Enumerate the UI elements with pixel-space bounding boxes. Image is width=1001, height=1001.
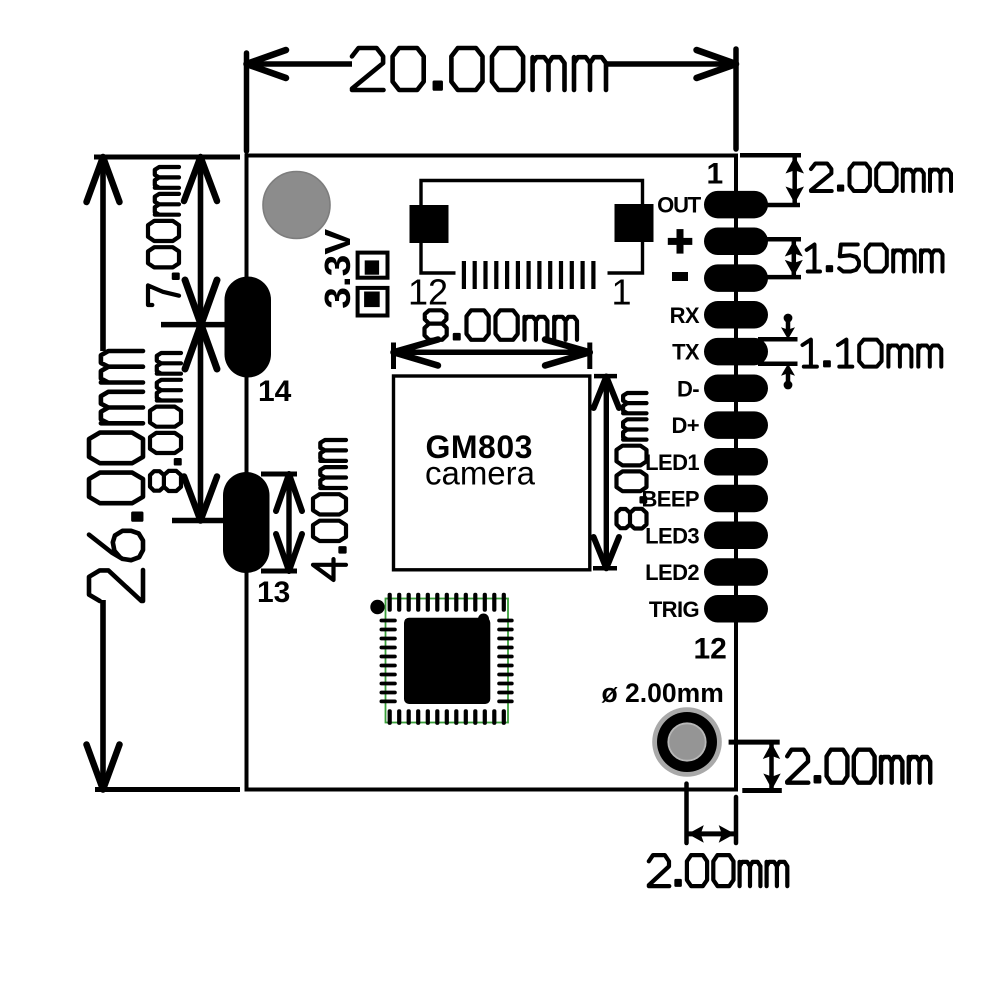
dimension 8.00mm (right of module) arrow up [594,377,619,409]
dimension mid tick at pad 14 centre [161,322,226,328]
dimension 1.50mm arrow down [785,260,803,276]
3.3V pad 1 outline [358,253,388,278]
dimension 1.50mm upper tick [763,237,801,242]
3.3V pad 2 outline [358,288,388,316]
QFP right pin column [497,619,514,704]
dimension label 8.00mm module (rotated) [617,393,647,529]
QFP top pin row [388,593,506,612]
dimension 1.10mm upper stem dot [784,314,793,323]
svg-text:D+: D+ [671,413,699,438]
dimension 26.00mm line upper segment [100,157,106,351]
dimension cross at pad 14 centre [185,280,217,369]
dimension 20.00mm line left segment [247,61,353,67]
dimension 26.00mm bottom tick [95,787,240,792]
dimension 2.00mm (bottom right) arrow up [763,743,780,759]
dimension label 2.00mm bottom [649,855,788,886]
dimension label 26.00mm left (rotated) [89,351,143,601]
svg-text:14: 14 [258,375,292,408]
dimension label 1.10mm [803,340,942,367]
dimension label 8.00mm left (rotated) [150,353,181,491]
dimension 2.00mm (bottom right) arrow down [763,774,780,790]
dimension 1.10mm arrow up [781,364,795,376]
right pad row pin 8 (LED1) [704,448,768,476]
dimension label 2.00mm bottom right [787,750,930,783]
dimension 4.00mm arrow down [276,534,302,571]
svg-text:12: 12 [408,272,448,313]
dimension 7.00mm arrow up [184,157,217,201]
right pad row pin 7 (D+) [704,411,768,439]
dimension 2.00mm (top right) upper tick [740,153,801,158]
right pad row pin 3 (-) [704,264,768,292]
plated hole outer ring [652,707,722,777]
QFP bottom pin row [388,709,506,725]
dimension label 7.00mm (rotated) [148,167,179,305]
pad 13 [223,472,270,573]
FPC connector right tab [615,204,654,242]
dimension label 4.00mm (rotated) [313,440,346,580]
dimension 4.00mm arrow up [276,474,302,511]
dimension label 8.00mm connector [425,310,578,340]
dimension label 1.50mm [807,245,943,272]
dimension 1.50mm line [792,239,797,277]
right pad row pin 6 (D-) [704,375,768,403]
svg-text:1: 1 [612,272,632,313]
QFP IC courtyard (green) [386,599,509,723]
3.3V pad 2 centre [364,292,380,308]
svg-text:D-: D- [677,376,699,401]
dimension 8.00mm (connector) arrow right [545,340,590,366]
plus label [668,229,693,254]
svg-text:ø 2.00mm: ø 2.00mm [602,678,724,708]
dimension 26.00mm arrow up [87,157,120,202]
dimension 2.00mm (top right) line [792,155,797,205]
dimension label 20.00mm top [352,48,606,90]
dimension 2.00mm (bottom right) line [769,742,774,790]
dimension 8.00mm (connector) arrow left [394,340,439,366]
dimension 1.10mm lower stem dot [784,381,793,390]
svg-text:LED2: LED2 [645,560,699,585]
FPC connector outline [421,181,643,274]
dimension 2.00mm (bottom right) upper tick [729,740,780,745]
dimension 2.00mm (bottom right) lower tick [742,788,782,793]
dimension 26.00mm line lower segment [100,600,106,790]
dimension 8.00mm (connector) right end bar [587,343,592,370]
dimension 4.00mm bottom tick [261,569,297,574]
plated hole bore [669,724,705,760]
FPC connector pins [462,261,596,289]
dimension 1.10mm lower stem [786,372,791,384]
dimension 20.00mm extension line left [244,53,250,151]
GM803 camera module outline [394,376,590,570]
dimension 8.00mm (connector) line [394,350,590,356]
dimension 20.00mm extension line right [733,49,739,149]
svg-text:camera: camera [425,455,536,492]
svg-text:OUT: OUT [657,193,702,218]
dimension 7.00mm / 8.00mm shared line [198,157,204,521]
right pad row pin 5 (TX) [704,338,768,366]
3.3V pad 1 centre [365,260,379,274]
dimension 8.00mm arrow down [184,477,217,521]
right pad row pin 11 (LED2) [704,558,768,586]
svg-text:1: 1 [707,158,724,191]
dimension 8.00mm (right of module) line [604,377,609,569]
QFP left pin column [380,619,397,704]
QFP IC body corner bump [478,614,489,625]
dimension 2.00mm (bottom) arrow left [688,825,704,843]
right pad row pin 9 (BEEP) [704,485,768,513]
svg-text:RX: RX [670,303,700,328]
svg-text:TRIG: TRIG [649,597,699,622]
svg-text:13: 13 [257,576,290,609]
dimension 2.00mm (top right) arrow down [786,187,805,204]
right pad row pin 2 (+) [704,228,768,256]
dimension 2.00mm (bottom) arrow right [719,825,735,843]
dimension 20.00mm line right segment [606,61,736,67]
dimension 1.50mm arrow up [785,241,803,257]
dimension 1.10mm arrow down [781,327,795,339]
plated hole black ring [657,712,717,772]
dimension 4.00mm line [286,474,291,571]
svg-text:12: 12 [694,633,727,666]
dimension 2.00mm (top right) arrow up [786,157,805,174]
dimension 8.00mm (connector) left end bar [391,343,396,370]
dimension 20.00mm arrow right [697,50,737,78]
pad 14 [225,277,272,378]
dimension 26.00mm top tick [94,155,240,160]
right pad row pin 10 (LED3) [704,522,768,550]
dimension 1.10mm upper stem [786,319,791,331]
right pad row pin 4 (RX) [704,301,768,329]
dimension 26.00mm arrow down [87,745,120,790]
dimension 8.00mm (right of module) top tick [594,374,617,379]
plated hole inner rim [667,722,706,761]
svg-text:BEEP: BEEP [641,487,699,512]
dimension 1.10mm upper tick [758,337,798,342]
dimension 20.00mm arrow left [247,50,287,78]
right pad row pin 1 (OUT) [704,191,768,219]
dimension 1.50mm lower tick [763,275,801,280]
dimension 2.00mm (bottom) line [688,831,735,836]
dimension 2.00mm (top right) lower tick [761,203,800,208]
dimension 8.00mm (right of module) arrow down [594,537,619,568]
minus label [672,272,688,281]
dimension 4.00mm top tick [261,472,297,477]
QFP pin-1 dot [370,600,384,614]
dimension label 2.00mm top right [811,164,951,192]
mounting hole top-left (gray) [263,172,330,239]
svg-text:LED1: LED1 [645,450,699,475]
svg-text:TX: TX [672,340,700,365]
dimension 2.00mm (bottom) hole centre extension [684,784,689,843]
dimension 8.00mm bottom tick [172,518,227,524]
right pad row pin 12 (TRIG) [704,595,768,623]
QFP IC body [404,618,490,704]
board outline [247,156,737,790]
svg-text:LED3: LED3 [645,523,699,548]
svg-text:3.3V: 3.3V [317,229,358,309]
dimension 8.00mm (right of module) bottom tick [593,566,617,571]
dimension 2.00mm (bottom) board edge extension [734,797,739,843]
dimension 1.10mm lower tick [758,362,798,367]
FPC connector left tab [410,205,449,243]
